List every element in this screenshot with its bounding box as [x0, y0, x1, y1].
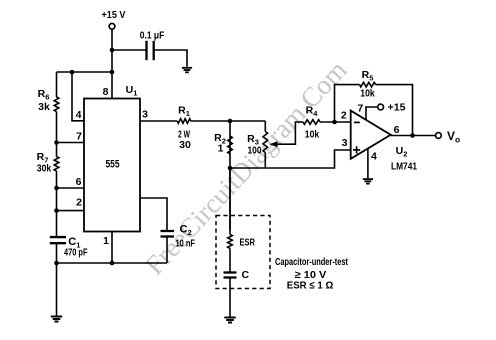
capacitor C1: [50, 236, 66, 238]
op-amp plus sign: [353, 149, 360, 151]
wire pin6: [57, 187, 85, 189]
svg-text:0.1 μF: 0.1 μF: [140, 31, 165, 42]
svg-text:2: 2: [76, 197, 82, 209]
junction output: [410, 133, 415, 138]
wire R1 to node A: [191, 120, 265, 122]
svg-text:555: 555: [106, 159, 120, 171]
svg-text:Capacitor-under-test: Capacitor-under-test: [275, 256, 348, 268]
wire feedback right: [376, 85, 413, 136]
IC U1 555 body: [84, 99, 140, 232]
svg-text:4: 4: [371, 151, 377, 163]
ground opamp: [363, 178, 373, 180]
junction pin6: [54, 186, 59, 191]
wire pin3 out: [140, 120, 177, 122]
wire left rail upper: [56, 72, 58, 97]
resistor R4: [303, 120, 320, 125]
terminal +15 opamp: [378, 104, 384, 110]
capacitor 0.1uF: [145, 41, 147, 60]
DUT dashed box: [216, 216, 270, 289]
wire bottom rail: [57, 262, 168, 264]
wire to C bypass: [112, 49, 146, 51]
svg-text:6: 6: [76, 176, 82, 188]
wire pin1: [111, 232, 113, 264]
svg-text:ESR ≤ 1 Ω: ESR ≤ 1 Ω: [287, 280, 334, 292]
resistor R3: [263, 132, 268, 153]
svg-text:+15: +15: [388, 102, 406, 114]
capacitor C test: [224, 271, 237, 273]
wire pin4 stub: [367, 149, 369, 179]
svg-text:ESR: ESR: [240, 237, 256, 249]
svg-text:100: 100: [248, 145, 262, 157]
resistor R1: [177, 119, 191, 124]
wire feedback left: [335, 85, 360, 122]
svg-text:1: 1: [218, 143, 224, 155]
svg-text:1: 1: [103, 235, 109, 247]
svg-text:470 pF: 470 pF: [64, 246, 88, 258]
junction pin2: [54, 208, 59, 213]
svg-text:10k: 10k: [305, 129, 320, 141]
junction pin1 bottom: [110, 261, 115, 266]
resistor R6: [54, 97, 59, 112]
svg-text:U1: U1: [126, 84, 138, 98]
svg-text:7: 7: [76, 131, 82, 143]
resistor R5: [360, 82, 376, 87]
ground main: [51, 316, 62, 318]
svg-text:R5: R5: [362, 69, 374, 83]
svg-text:10k: 10k: [360, 88, 375, 100]
wire R4 to pin2: [320, 121, 351, 123]
op-amp U2 triangle: [351, 111, 391, 159]
svg-text:U2: U2: [396, 145, 408, 159]
svg-text:30k: 30k: [37, 163, 52, 175]
resistor ESR: [228, 234, 233, 248]
svg-text:4: 4: [76, 109, 82, 121]
ground bypass: [182, 67, 192, 69]
pot wiper arrow R3: [276, 122, 303, 144]
svg-text:2: 2: [341, 110, 347, 122]
resistor R2: [228, 121, 233, 230]
capacitor C2: [161, 230, 175, 232]
junction pin7: [54, 140, 59, 145]
junction bottom left: [54, 261, 59, 266]
wire C2 to bottom rail: [166, 237, 168, 263]
junction node A: [228, 119, 233, 124]
wire C test to ground: [229, 278, 231, 317]
wire ESR to C: [229, 248, 231, 272]
svg-text:LM741: LM741: [391, 162, 417, 173]
junction node B: [228, 166, 233, 171]
wire node B to DUT: [229, 168, 231, 234]
svg-text:+15 V: +15 V: [102, 9, 126, 21]
+15V terminal: [109, 23, 115, 29]
wire output: [391, 135, 436, 137]
svg-text:8: 8: [103, 86, 109, 98]
wire left rail mid1: [56, 112, 58, 157]
terminal Vo: [436, 133, 442, 139]
svg-text:R1: R1: [178, 105, 190, 119]
junction top rail right: [110, 70, 115, 75]
svg-text:3k: 3k: [38, 101, 50, 113]
junction opamp pin2: [332, 120, 337, 125]
wire left rail mid2: [56, 171, 58, 236]
svg-text:10 nF: 10 nF: [176, 238, 196, 250]
svg-text:R6: R6: [38, 88, 50, 102]
op-amp minus sign: [354, 121, 360, 123]
wire +15V stem: [111, 29, 113, 98]
ground DUT: [224, 317, 235, 319]
resistor R7: [54, 157, 59, 172]
wire pin7 stub: [366, 107, 378, 120]
wire pin7: [57, 142, 85, 144]
wire 555 to C2: [140, 198, 167, 231]
svg-text:Vo: Vo: [447, 129, 460, 145]
svg-text:6: 6: [394, 124, 400, 136]
wire node A down to R3: [264, 121, 266, 132]
wire main ground stem: [56, 263, 58, 316]
wire top rail: [57, 71, 113, 73]
svg-text:30: 30: [179, 139, 191, 151]
svg-text:C: C: [242, 269, 250, 281]
wire left rail lower: [56, 244, 58, 263]
svg-text:3: 3: [342, 137, 348, 149]
wire C bypass to ground: [154, 50, 187, 67]
wire R3 to lower rail: [264, 153, 266, 168]
wire pin2: [57, 210, 85, 212]
svg-text:3: 3: [142, 109, 148, 121]
junction +15/0.1uF: [110, 48, 115, 53]
junction pin4 rail: [70, 70, 75, 75]
wire pin4: [72, 72, 84, 121]
wire lower rail: [230, 150, 351, 168]
svg-text:7: 7: [357, 103, 363, 115]
